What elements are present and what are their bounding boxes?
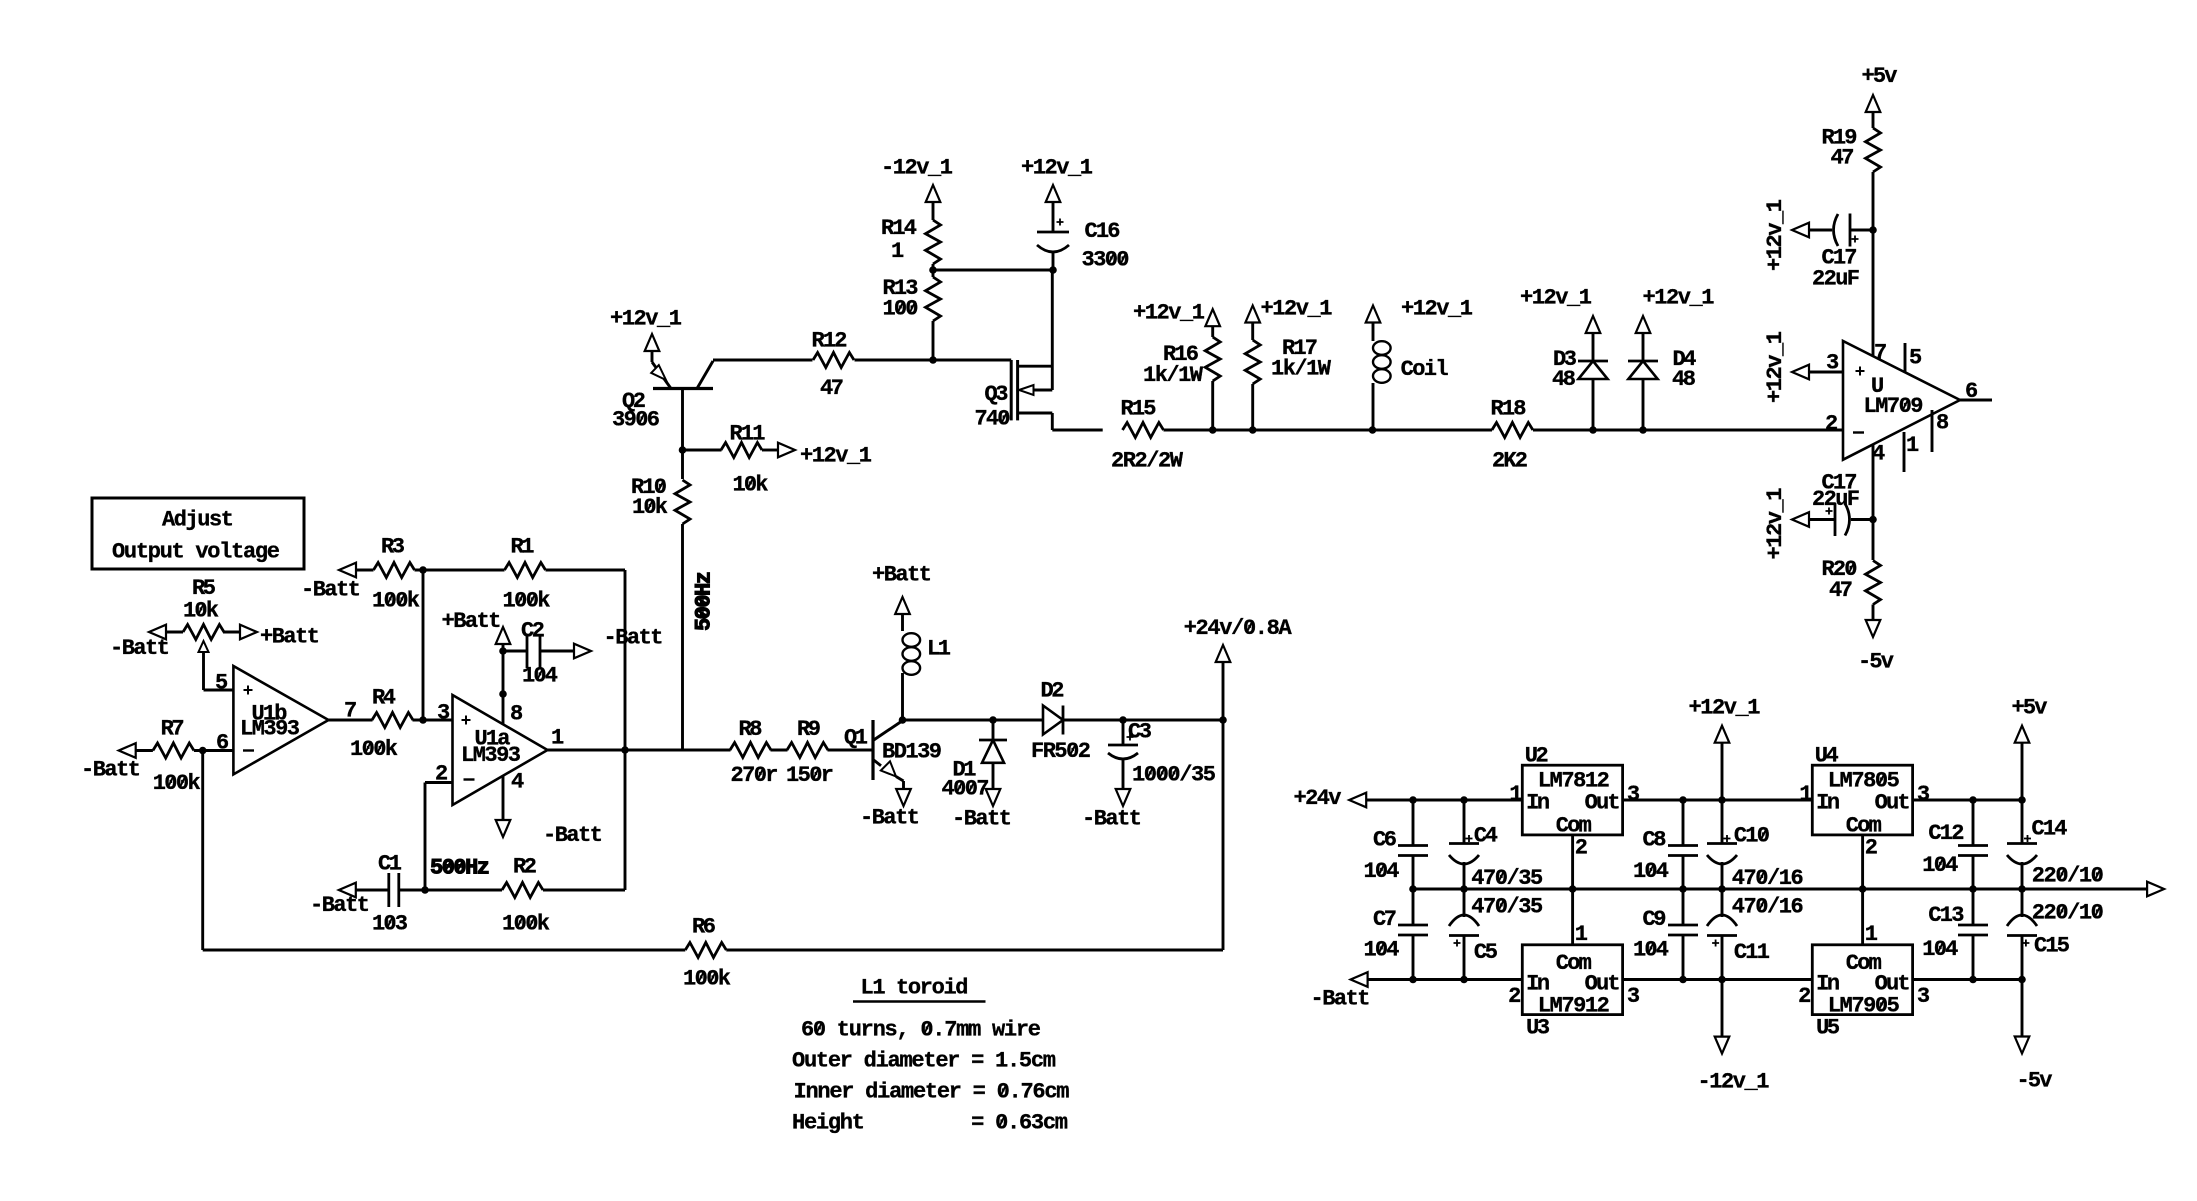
wire R2 to rail <box>543 889 625 892</box>
resistor R9 150r <box>787 743 828 758</box>
node D4/main <box>1639 426 1647 434</box>
wire gate <box>933 359 1011 362</box>
wire Q2 base down <box>681 389 684 480</box>
resistor R6 <box>685 943 726 958</box>
svg-text:BD139: BD139 <box>882 740 942 765</box>
svg-text:47: 47 <box>1829 578 1853 603</box>
node R3/R1/rail <box>419 566 427 574</box>
node pin8 lower <box>499 690 507 698</box>
wire bottom rail left <box>1368 978 1523 981</box>
svg-text:1: 1 <box>1799 782 1812 807</box>
power -5v rail <box>2021 980 2024 1037</box>
svg-text:8: 8 <box>1936 411 1949 436</box>
svg-text:6: 6 <box>216 731 229 756</box>
capacitor C3 1000/35 <box>1122 720 1125 745</box>
wire U4 out <box>1913 799 2022 802</box>
svg-text:+12v_1: +12v_1 <box>610 307 682 332</box>
svg-text:-12v_1: -12v_1 <box>1698 1070 1770 1095</box>
node base/R11 <box>679 446 687 454</box>
svg-text:5: 5 <box>1909 346 1922 371</box>
svg-text:+12v_1: +12v_1 <box>1689 696 1761 721</box>
svg-text:L1 toroid: L1 toroid <box>861 976 969 1001</box>
pin8 tick <box>1931 410 1934 452</box>
svg-text:-Batt: -Batt <box>310 893 370 918</box>
svg-text:470/16: 470/16 <box>1732 895 1804 920</box>
svg-text:1: 1 <box>1575 922 1588 947</box>
net +12v_1 C17b <box>1763 488 1788 560</box>
svg-text:4007: 4007 <box>942 777 990 802</box>
svg-text:48: 48 <box>1672 367 1696 392</box>
svg-text:C7: C7 <box>1373 907 1397 932</box>
svg-text:-Batt: -Batt <box>301 578 361 603</box>
svg-text:100k: 100k <box>502 912 550 937</box>
svg-text:C5: C5 <box>1474 940 1498 965</box>
resistor R1 <box>505 563 546 578</box>
svg-text:R8: R8 <box>739 717 763 742</box>
power -Batt Q1 <box>896 789 911 806</box>
svg-text:3: 3 <box>1917 782 1930 807</box>
svg-text:-Batt: -Batt <box>110 636 170 661</box>
wire middle rail <box>1413 888 2148 891</box>
resistor R4 <box>372 713 413 728</box>
node C16/drain <box>1049 266 1057 274</box>
svg-text:R9: R9 <box>797 717 821 742</box>
svg-text:R11: R11 <box>730 422 766 447</box>
svg-text:C2: C2 <box>521 619 545 644</box>
power +Batt L1 <box>895 597 910 614</box>
resistor R15 2R2/2W <box>1123 423 1164 438</box>
svg-text:740: 740 <box>975 407 1011 432</box>
resistor R19 47 <box>1866 128 1881 172</box>
svg-text:7: 7 <box>344 699 357 724</box>
svg-text:1: 1 <box>551 726 564 751</box>
regulator U5 LM7905 <box>1812 945 1912 1015</box>
output arrow mid rail <box>2147 882 2164 897</box>
svg-text:Out: Out <box>1585 790 1621 815</box>
power -12v_1 rail <box>1721 980 1724 1037</box>
node D3/main <box>1589 426 1597 434</box>
svg-text:220/10: 220/10 <box>2032 864 2104 889</box>
capacitor C1 103 <box>387 873 390 907</box>
capacitor C16 3300 <box>1037 231 1069 234</box>
op-amp U1b LM393 <box>233 666 328 774</box>
svg-text:1: 1 <box>1906 433 1919 458</box>
svg-text:C9: C9 <box>1643 907 1667 932</box>
svg-text:2: 2 <box>1865 836 1878 861</box>
wire R1 to feedback rail <box>546 569 626 572</box>
wire U4 com <box>1861 835 1864 889</box>
svg-text:C16: C16 <box>1085 219 1121 244</box>
svg-text:100k: 100k <box>153 771 201 796</box>
svg-text:C12: C12 <box>1928 821 1964 846</box>
diode D3 48 <box>1578 360 1608 363</box>
svg-text:3: 3 <box>1917 984 1930 1009</box>
svg-text:-Batt: -Batt <box>604 626 664 651</box>
node R17/main <box>1249 426 1257 434</box>
svg-text:220/10: 220/10 <box>2032 900 2104 925</box>
svg-text:+12v_1: +12v_1 <box>1520 285 1592 310</box>
svg-text:47: 47 <box>1831 146 1855 171</box>
resistor R3 <box>374 563 415 578</box>
resistor R2 <box>502 883 543 898</box>
svg-text:-Batt: -Batt <box>952 807 1012 832</box>
node output/feedback <box>621 746 629 754</box>
pin5 tick <box>1904 343 1907 372</box>
power -5v <box>1866 620 1881 637</box>
wire rail R3 down to pin3 <box>422 570 425 720</box>
svg-text:5: 5 <box>215 671 228 696</box>
node D1 <box>989 716 997 724</box>
wire node line <box>903 719 1044 722</box>
wire pin4 down <box>1872 445 1875 560</box>
regulator U2 LM7812 <box>1522 765 1622 835</box>
transistor Q3 740 mosfet <box>1010 360 1013 420</box>
capacitor C2 104 <box>503 650 527 653</box>
svg-text:2: 2 <box>1575 836 1588 861</box>
svg-text:-Batt: -Batt <box>1082 807 1142 832</box>
svg-text:-Batt: -Batt <box>81 758 141 783</box>
svg-text:C10: C10 <box>1734 823 1770 848</box>
wire pin5 U1b <box>204 689 234 692</box>
svg-text:U2: U2 <box>1525 744 1549 769</box>
svg-text:R12: R12 <box>812 329 848 354</box>
svg-text:2: 2 <box>1825 412 1838 437</box>
wire U1b output pin7 <box>329 719 373 722</box>
capacitor C14 220/10 <box>2007 842 2037 845</box>
svg-text:R3: R3 <box>381 535 405 560</box>
resistor R10 <box>675 480 690 524</box>
transistor Q1 BD139 <box>871 720 874 780</box>
op-amp U1a LM393 <box>453 695 548 805</box>
note box Adjust Output voltage <box>92 498 304 569</box>
resistor R16 1k/1W <box>1205 337 1220 381</box>
svg-text:1: 1 <box>1509 782 1522 807</box>
svg-text:Outer diameter = 1.5cm: Outer diameter = 1.5cm <box>792 1049 1056 1074</box>
node R7/pin6 <box>199 747 207 755</box>
diode D4 48 <box>1628 360 1658 363</box>
svg-text:Out: Out <box>1875 790 1911 815</box>
svg-text:+12v_1: +12v_1 <box>1643 285 1715 310</box>
svg-text:100k: 100k <box>683 967 731 992</box>
svg-text:R1: R1 <box>511 535 535 560</box>
capacitor C17a 22uF <box>1792 223 1809 238</box>
svg-text:-5v: -5v <box>2017 1069 2053 1094</box>
svg-text:U3: U3 <box>1526 1016 1550 1041</box>
node R19/C17a <box>1869 226 1877 234</box>
svg-text:C15: C15 <box>2034 934 2070 959</box>
capacitor C4 470/35 <box>1463 800 1466 844</box>
svg-text:1: 1 <box>891 239 904 264</box>
svg-text:-Batt: -Batt <box>1311 987 1371 1012</box>
diode D2 FR502 <box>1043 706 1063 735</box>
svg-text:2K2: 2K2 <box>1492 449 1528 474</box>
svg-text:Inner diameter = 0.76cm: Inner diameter = 0.76cm <box>794 1080 1070 1105</box>
svg-text:+Batt: +Batt <box>260 625 320 650</box>
svg-text:100k: 100k <box>372 589 420 614</box>
wire source main line <box>1052 429 1102 432</box>
node R14/R13/C16 <box>929 266 937 274</box>
svg-text:FR502: FR502 <box>1031 739 1091 764</box>
transistor Q2 3906 <box>651 351 654 362</box>
capacitor C12 104 <box>1972 800 1975 846</box>
svg-text:47: 47 <box>820 376 844 401</box>
node pin4/C17b <box>1869 516 1877 524</box>
node +24v/D2 line <box>1219 716 1227 724</box>
svg-text:Adjust: Adjust <box>162 508 234 533</box>
svg-text:+Batt: +Batt <box>872 563 932 588</box>
svg-text:C14: C14 <box>2032 817 2068 842</box>
svg-text:+12v_1: +12v_1 <box>1763 199 1788 271</box>
svg-text:In: In <box>1816 790 1840 815</box>
svg-text:In: In <box>1526 790 1550 815</box>
svg-text:C4: C4 <box>1474 823 1498 848</box>
svg-text:+12v_1: +12v_1 <box>1763 488 1788 560</box>
node R16/main <box>1209 426 1217 434</box>
svg-text:+12v_1: +12v_1 <box>1401 297 1473 322</box>
net +12v_1 C17a <box>1763 199 1788 271</box>
regulator U3 LM7912 <box>1522 945 1622 1015</box>
wire U2 com <box>1571 835 1574 889</box>
svg-text:270r: 270r <box>731 763 779 788</box>
svg-text:150r: 150r <box>786 763 834 788</box>
svg-text:+24v/0.8A: +24v/0.8A <box>1184 616 1293 641</box>
wire to LM709 pin2 <box>1643 429 1843 432</box>
wire output pin6 <box>1960 399 1992 402</box>
svg-text:+5v: +5v <box>1862 64 1898 89</box>
wire 500Hz vertical <box>681 524 684 750</box>
svg-text:LM393: LM393 <box>461 743 521 768</box>
svg-text:3906: 3906 <box>612 408 660 433</box>
svg-text:+12v_1: +12v_1 <box>1261 297 1333 322</box>
svg-text:-5v: -5v <box>1858 650 1894 675</box>
resistor R7 <box>153 743 194 758</box>
svg-text:1k/1W: 1k/1W <box>1271 357 1332 382</box>
svg-text:Q3: Q3 <box>985 382 1009 407</box>
svg-text:+Batt: +Batt <box>442 609 502 634</box>
svg-text:60 turns, 0.7mm wire: 60 turns, 0.7mm wire <box>801 1018 1041 1043</box>
node R4/pin3 <box>419 716 427 724</box>
capacitor C10 470/16 <box>1707 842 1737 845</box>
node collector/L1 <box>899 716 907 724</box>
capacitor C13 104 <box>1958 924 1988 927</box>
svg-text:LM709: LM709 <box>1864 394 1924 419</box>
wire top rail left <box>1366 799 1522 802</box>
svg-text:C8: C8 <box>1643 828 1667 853</box>
svg-text:-Batt: -Batt <box>543 823 603 848</box>
wire R6 rail <box>203 949 686 952</box>
inductor L1 <box>901 673 904 720</box>
svg-text:Height = 0.63cm: Height = 0.63cm <box>792 1111 1068 1136</box>
svg-text:+12v_1: +12v_1 <box>1763 331 1788 403</box>
power -Batt pin4 <box>502 776 505 820</box>
wire U1a output <box>548 749 731 752</box>
svg-text:LM7912: LM7912 <box>1538 994 1610 1019</box>
svg-text:R6: R6 <box>692 915 716 940</box>
svg-text:Q1: Q1 <box>844 726 868 751</box>
svg-text:1k/1W: 1k/1W <box>1143 363 1204 388</box>
node C1/R2/pin2 <box>421 886 429 894</box>
potentiometer R5 <box>183 625 224 640</box>
svg-text:3: 3 <box>1627 782 1640 807</box>
svg-text:R14: R14 <box>881 216 917 241</box>
svg-text:6: 6 <box>1965 379 1978 404</box>
svg-text:2R2/2W: 2R2/2W <box>1111 449 1184 474</box>
svg-text:-Batt: -Batt <box>860 806 920 831</box>
svg-text:22uF: 22uF <box>1812 267 1860 292</box>
resistor R12 <box>813 353 854 368</box>
svg-text:1: 1 <box>1865 922 1878 947</box>
svg-text:C1: C1 <box>378 852 402 877</box>
node R13/R12/gate <box>929 356 937 364</box>
svg-text:C6: C6 <box>1373 828 1397 853</box>
capacitor C6 104 <box>1412 800 1415 846</box>
svg-text:100k: 100k <box>503 589 551 614</box>
op-amp U LM709 <box>1843 341 1960 460</box>
svg-text:R4: R4 <box>372 686 396 711</box>
svg-text:3: 3 <box>1627 984 1640 1009</box>
wire U5 com <box>1861 889 1864 945</box>
svg-text:LM393: LM393 <box>240 717 300 742</box>
wire U5 out <box>1913 978 2022 981</box>
wire U3 out <box>1623 978 1813 981</box>
node pin8/C2 <box>499 647 507 655</box>
resistor R20 47 <box>1866 561 1881 605</box>
net label 500Hz vertical <box>692 571 717 631</box>
svg-text:2: 2 <box>1798 984 1811 1009</box>
svg-text:8: 8 <box>510 702 523 727</box>
resistor R14 1 <box>926 220 941 264</box>
svg-text:+5v: +5v <box>2012 696 2048 721</box>
svg-text:U4: U4 <box>1815 744 1839 769</box>
svg-text:22uF: 22uF <box>1812 487 1860 512</box>
svg-text:+12v_1: +12v_1 <box>800 444 872 469</box>
svg-text:+12v_1: +12v_1 <box>1021 156 1093 181</box>
svg-text:D2: D2 <box>1041 679 1065 704</box>
wire pin2 U1a <box>425 781 453 784</box>
svg-text:3: 3 <box>437 701 450 726</box>
svg-text:470/35: 470/35 <box>1471 866 1543 891</box>
svg-text:L1: L1 <box>927 637 951 662</box>
svg-text:Coil: Coil <box>1401 357 1449 382</box>
svg-text:R15: R15 <box>1121 397 1157 422</box>
wire U3 com <box>1571 889 1574 945</box>
svg-text:R18: R18 <box>1491 397 1527 422</box>
svg-text:-12v_1: -12v_1 <box>881 156 953 181</box>
node Coil/main <box>1369 426 1377 434</box>
wire Q2 collector to R12 <box>713 359 813 362</box>
svg-text:48: 48 <box>1552 367 1576 392</box>
capacitor C7 104 <box>1398 924 1428 927</box>
wire feedback left vertical <box>201 751 204 951</box>
svg-text:R5: R5 <box>192 576 216 601</box>
resistor R8 270r <box>730 743 771 758</box>
resistor R18 2K2 <box>1492 423 1533 438</box>
svg-text:7: 7 <box>1874 341 1887 366</box>
capacitor C9 104 <box>1668 924 1698 927</box>
node C3 <box>1119 716 1127 724</box>
svg-text:C11: C11 <box>1734 940 1770 965</box>
resistor R17 1k/1W <box>1245 340 1260 384</box>
resistor R11 <box>683 449 722 452</box>
svg-text:R2: R2 <box>513 855 537 880</box>
capacitor C17b 22uF <box>1792 512 1809 527</box>
pin1 tick <box>1903 432 1906 472</box>
capacitor C8 104 <box>1682 800 1685 846</box>
svg-text:4: 4 <box>511 770 524 795</box>
wire pin3 +12v_1 <box>1792 365 1809 380</box>
resistor R13 100 <box>926 277 941 321</box>
svg-text:+24v: +24v <box>1294 786 1342 811</box>
diode D1 4007 <box>992 720 995 740</box>
inductor Coil <box>1373 341 1391 355</box>
svg-text:100k: 100k <box>350 737 398 762</box>
regulator U4 LM7805 <box>1812 765 1912 835</box>
svg-text:U5: U5 <box>1816 1016 1840 1041</box>
svg-text:470/35: 470/35 <box>1471 895 1543 920</box>
svg-text:C13: C13 <box>1928 903 1964 928</box>
svg-text:Output voltage: Output voltage <box>112 540 280 565</box>
svg-text:2: 2 <box>1508 984 1521 1009</box>
svg-text:+12v_1: +12v_1 <box>1133 300 1205 325</box>
svg-text:C3: C3 <box>1128 720 1152 745</box>
wire U2 out <box>1623 799 1813 802</box>
svg-text:470/16: 470/16 <box>1732 866 1804 891</box>
svg-text:R7: R7 <box>161 717 185 742</box>
svg-text:LM7905: LM7905 <box>1828 994 1900 1019</box>
